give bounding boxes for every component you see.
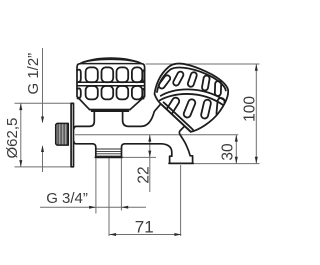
extension lines, G3/4 thread sides — [96, 158, 122, 213]
dimension G 1/2" leader — [42, 48, 44, 172]
extension line, G3/4 outlet axis, for dim 71 — [108, 158, 110, 236]
handwheel 1 knurl row 1 — [77, 67, 145, 82]
svg-text:30: 30 — [219, 143, 236, 161]
spout bell outlet — [169, 126, 193, 163]
svg-text:G 3/4”: G 3/4” — [46, 190, 88, 207]
thread G1/2 outline — [56, 123, 69, 145]
valve 1 neck right and top edge right of neck into branch — [123, 105, 161, 127]
handwheel 2 band arc lines — [160, 89, 225, 105]
handwheel 2 knurl slots lower row — [164, 96, 224, 119]
extension lines, flange top and bottom, for dim Ø62,5 — [15, 103, 72, 167]
dimension 22 — [149, 135, 151, 192]
extension line, spout axis, for dim 71 — [180, 165, 182, 236]
handwheel 1 outline — [77, 59, 145, 109]
centerline body axis — [75, 134, 238, 136]
dimension Ø62,5 — [20, 103, 22, 167]
svg-text:100: 100 — [242, 96, 259, 122]
dimension G 3/4" — [40, 206, 146, 208]
body tube bottom left with G3/4 boss — [74, 141, 172, 156]
extension line, handwheel top face level, for dim 100 — [146, 63, 260, 65]
handwheel 1 knurl row 2 — [77, 86, 145, 99]
svg-text:71: 71 — [135, 218, 154, 237]
G3/4 outlet thread hatch — [96, 149, 122, 156]
handwheel 1 dome top arc — [80, 58, 141, 64]
svg-text:22: 22 — [135, 166, 152, 183]
dimension 30 — [235, 135, 237, 164]
valve 1 skirt bottom face double line — [90, 110, 131, 112]
handwheel 2 knurl slots upper row — [158, 71, 222, 97]
handwheel 2 face inner line — [157, 68, 226, 92]
extension line, spout outlet face level, for dims 30 and 100 — [193, 163, 260, 165]
handwheel 1 top face line — [80, 63, 141, 65]
handwheel 2 skirt face double line — [162, 102, 193, 132]
handwheel 1 band lines — [77, 82, 145, 86]
body tube outline top — [74, 111, 95, 129]
svg-text:G 1/2”: G 1/2” — [25, 53, 42, 95]
dimension 100 — [255, 64, 257, 164]
svg-text:Ø62,5: Ø62,5 — [4, 118, 21, 159]
flange plate — [71, 103, 73, 166]
dimension 71 — [109, 234, 181, 236]
extension line, G3/4 outlet face level, for dim 22 — [122, 156, 156, 158]
thread G1/2 male inlet hatch — [57, 124, 67, 145]
G3/4 outlet face — [95, 156, 122, 158]
